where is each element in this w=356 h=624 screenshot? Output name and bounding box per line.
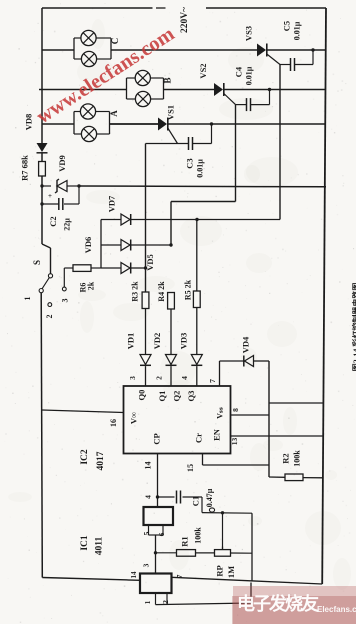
svg-text:100k: 100k [292, 450, 301, 467]
svg-text:7: 7 [208, 379, 217, 383]
svg-text:VS3: VS3 [243, 26, 253, 41]
svg-text:电子发烧友: 电子发烧友 [237, 593, 319, 614]
svg-text:RP: RP [214, 565, 224, 576]
svg-text:3: 3 [128, 376, 137, 380]
svg-text:S: S [32, 260, 42, 265]
svg-text:VS1: VS1 [165, 105, 175, 120]
svg-text:1: 1 [23, 297, 32, 301]
svg-text:IC2: IC2 [80, 449, 90, 465]
svg-text:14: 14 [143, 462, 152, 470]
svg-text:R5 2k: R5 2k [183, 279, 192, 300]
svg-text:VD2: VD2 [152, 333, 162, 350]
svg-text:R2: R2 [280, 453, 290, 463]
svg-text:Cr: Cr [193, 433, 203, 443]
svg-text:A: A [109, 110, 119, 117]
svg-text:VD6: VD6 [83, 237, 93, 254]
svg-text:4011: 4011 [95, 537, 105, 556]
svg-text:B: B [163, 77, 173, 83]
svg-text:VD9: VD9 [57, 155, 67, 172]
svg-text:VD7: VD7 [106, 195, 116, 212]
svg-text:R4 2k: R4 2k [157, 281, 166, 302]
svg-text:2k: 2k [86, 281, 95, 290]
svg-text:VD3: VD3 [178, 333, 188, 350]
svg-text:15: 15 [186, 464, 195, 472]
svg-text:C4: C4 [233, 66, 243, 77]
svg-text:3: 3 [142, 563, 151, 567]
svg-text:图2-14 彩灯控制器电路图: 图2-14 彩灯控制器电路图 [351, 283, 356, 372]
svg-text:3: 3 [60, 299, 69, 303]
svg-text:13: 13 [230, 438, 239, 446]
svg-text:C: C [110, 38, 120, 45]
svg-text:Q3: Q3 [186, 391, 196, 402]
svg-text:0.47μ: 0.47μ [205, 488, 214, 507]
svg-text:Q0: Q0 [136, 390, 146, 401]
svg-text:VD5: VD5 [145, 254, 155, 271]
svg-text:2: 2 [161, 600, 170, 604]
svg-text:100k: 100k [193, 527, 202, 544]
svg-text:0.01μ: 0.01μ [292, 21, 301, 40]
svg-text:0.01μ: 0.01μ [244, 66, 253, 85]
svg-text:VD4: VD4 [240, 336, 250, 353]
svg-text:C2: C2 [48, 216, 58, 226]
svg-text:1M: 1M [226, 566, 236, 578]
svg-text:5: 5 [142, 531, 151, 535]
svg-text:2: 2 [45, 315, 54, 319]
svg-text:1: 1 [143, 600, 152, 604]
svg-text:www.elecfans.com: www.elecfans.com [33, 23, 179, 128]
svg-text:4: 4 [180, 376, 189, 380]
svg-text:R1: R1 [179, 536, 189, 546]
svg-text:4: 4 [144, 495, 153, 499]
svg-text:Vₛₛ: Vₛₛ [215, 407, 224, 419]
svg-text:8: 8 [231, 408, 240, 412]
svg-text:VD1: VD1 [125, 333, 135, 350]
svg-text:CP: CP [151, 433, 161, 444]
svg-text:16: 16 [109, 419, 118, 427]
svg-text:V∞: V∞ [128, 412, 138, 424]
svg-text:Q2: Q2 [171, 391, 181, 402]
svg-text:IC1: IC1 [80, 535, 90, 551]
svg-text:VD8: VD8 [23, 114, 33, 131]
svg-text:6: 6 [157, 532, 166, 536]
svg-text:4017: 4017 [96, 451, 106, 470]
svg-text:VS2: VS2 [198, 63, 208, 78]
svg-text:C3: C3 [184, 158, 194, 168]
svg-text:EN: EN [211, 428, 221, 441]
svg-text:0.01μ: 0.01μ [195, 159, 204, 178]
svg-text:7: 7 [175, 574, 184, 578]
svg-text:22μ: 22μ [62, 218, 71, 231]
svg-text:R3 2k: R3 2k [130, 281, 139, 302]
svg-text:2: 2 [155, 376, 164, 380]
svg-text:C5: C5 [281, 21, 291, 31]
svg-text:Q1: Q1 [157, 391, 167, 402]
svg-text:C1: C1 [190, 496, 200, 506]
svg-text:Elecfans.com: Elecfans.com [317, 605, 356, 614]
svg-text:+: + [48, 192, 52, 200]
svg-text:14: 14 [130, 571, 138, 579]
svg-text:220V~: 220V~ [180, 7, 190, 33]
svg-text:R7 68k: R7 68k [19, 155, 29, 181]
